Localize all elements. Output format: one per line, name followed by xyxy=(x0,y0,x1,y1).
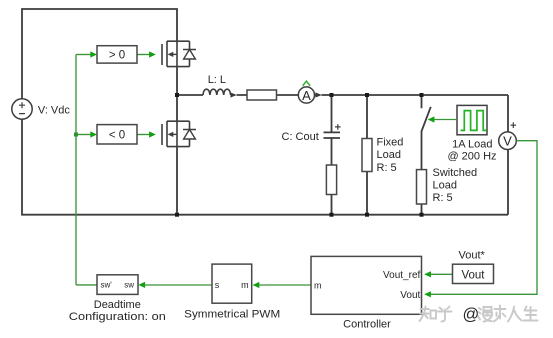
svg-text:< 0: < 0 xyxy=(109,129,125,141)
svg-text:m: m xyxy=(314,280,322,290)
svg-text:1A Load: 1A Load xyxy=(452,139,492,151)
svg-text:Configuration: on: Configuration: on xyxy=(69,311,166,323)
svg-text:Deadtime: Deadtime xyxy=(94,299,141,311)
svg-text:Symmetrical PWM: Symmetrical PWM xyxy=(184,308,280,320)
svg-text:V: Vdc: V: Vdc xyxy=(38,104,70,116)
svg-text:sw': sw' xyxy=(101,281,113,290)
svg-text:m: m xyxy=(241,280,249,290)
svg-text:R: 5: R: 5 xyxy=(433,192,453,204)
svg-text:A: A xyxy=(302,88,311,103)
svg-text:V: V xyxy=(503,134,512,149)
svg-text:Controller: Controller xyxy=(343,319,391,331)
svg-text:s: s xyxy=(215,280,220,290)
svg-text:Vout*: Vout* xyxy=(459,249,486,261)
svg-text:@: @ xyxy=(463,306,480,324)
svg-text:C: Cout: C: Cout xyxy=(282,131,319,143)
svg-text:R: 5: R: 5 xyxy=(377,162,397,174)
svg-text:sw: sw xyxy=(124,281,134,290)
svg-text:Vout: Vout xyxy=(400,290,420,301)
svg-text:Fixed: Fixed xyxy=(377,136,404,148)
svg-text:Vout: Vout xyxy=(461,269,485,281)
svg-text:Load: Load xyxy=(433,179,457,191)
svg-text:Switched: Switched xyxy=(433,167,478,179)
svg-text:@ 200 Hz: @ 200 Hz xyxy=(447,151,496,163)
svg-text:Vout_ref: Vout_ref xyxy=(383,270,420,281)
svg-text:L: L: L: L xyxy=(208,74,226,86)
svg-text:> 0: > 0 xyxy=(109,50,125,62)
svg-text:Load: Load xyxy=(377,149,401,161)
